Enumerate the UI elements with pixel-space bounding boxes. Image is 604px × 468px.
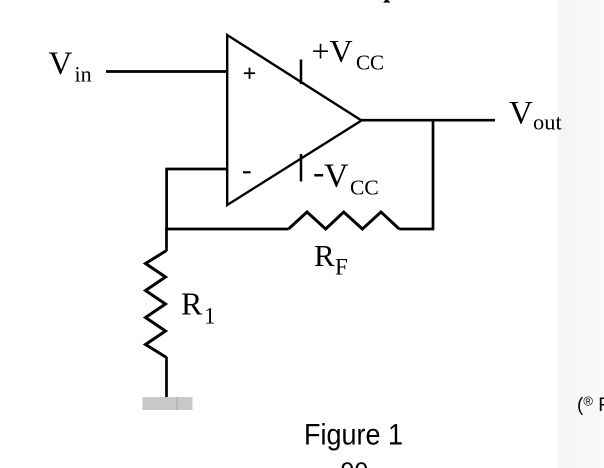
svg-text:in: in [75,62,92,87]
svg-text:F: F [335,255,348,280]
svg-text:CC: CC [356,51,384,75]
svg-text:1: 1 [204,304,216,329]
svg-text:R: R [181,286,203,322]
svg-text:-: - [313,154,324,191]
svg-text:+V: +V [312,33,353,69]
svg-text:(® F: (® F [577,394,604,417]
svg-text:R: R [314,238,335,273]
svg-text:90: 90 [341,458,369,468]
svg-text:V: V [49,46,73,82]
svg-text:out: out [533,110,563,135]
svg-text:CC: CC [350,176,379,200]
svg-text:V: V [324,158,349,195]
svg-text:Figure 1: Figure 1 [304,419,403,452]
svg-text:V: V [509,96,533,132]
